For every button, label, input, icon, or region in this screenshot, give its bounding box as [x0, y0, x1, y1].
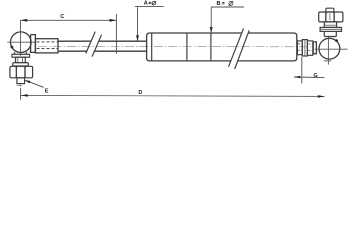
left hex nut facet 1: [10, 66, 17, 78]
label E leader line: [25, 80, 43, 87]
right ball marker dot: [335, 39, 338, 42]
left washer: [13, 63, 29, 66]
ball socket circle (right eye): [319, 38, 340, 59]
hidden thread line upper: [37, 41, 58, 43]
cylinder body outline: [147, 33, 297, 61]
right flange midline: [321, 28, 341, 30]
svg-text:A: A: [144, 1, 148, 7]
dimension G arrow: [294, 76, 300, 78]
cylinder break line 2: [235, 30, 250, 69]
label B leader line: [210, 7, 212, 33]
right nut centerline dash: [329, 14, 331, 21]
left hex nut facet 3: [25, 66, 33, 78]
right connector nut flats: [304, 40, 306, 56]
dimension C right extension line: [115, 14, 117, 54]
svg-text:D: D: [138, 90, 142, 96]
dimension D line: [21, 95, 325, 96]
label A leader arrow: [136, 35, 139, 41]
svg-text:G: G: [313, 73, 317, 79]
rod break line 2: [92, 35, 101, 57]
dimension C left arrow: [21, 19, 28, 22]
main axis centerline: [38, 45, 313, 48]
left threaded stud: [17, 78, 25, 84]
svg-text:C: C: [60, 14, 64, 20]
label B underline: [211, 6, 244, 8]
right connector block 3 marks: [308, 44, 312, 51]
left neck: [16, 57, 26, 62]
dimension D left extension line: [20, 85, 22, 100]
right neck mid line: [324, 24, 336, 26]
right connector thread dashes: [298, 44, 302, 50]
dimension C line: [21, 19, 117, 21]
hidden thread line lower: [37, 48, 58, 50]
dimension C right arrow: [110, 19, 117, 22]
piston rod bottom outline: [58, 50, 147, 52]
dimension G line: [294, 76, 325, 79]
cylinder feature line 1: [186, 33, 188, 61]
left hex nut facet 2: [16, 66, 25, 78]
label B diameter symbol: [229, 1, 234, 6]
right hex nut facet 1: [319, 12, 326, 22]
right ball horizontal centerline: [315, 48, 348, 50]
left flange plate: [12, 54, 30, 57]
ball socket circle (left eye): [10, 32, 31, 53]
right neck: [324, 22, 336, 28]
right connector nut block: [302, 40, 307, 56]
dimension D right arrow: [318, 95, 325, 98]
right hex nut facet 3: [334, 12, 343, 22]
label A underline: [135, 6, 164, 8]
right connector thread block: [297, 41, 302, 55]
right ball vertical centerline: [327, 36, 329, 64]
dimension D left arrow: [21, 94, 28, 97]
left ball marker dot: [11, 46, 14, 49]
right hex nut facet 2: [326, 12, 334, 22]
left ball vertical centerline / C extension line: [20, 20, 22, 56]
right connector block 3: [307, 41, 312, 55]
piston rod top outline: [58, 40, 147, 42]
left stud tip mark: [17, 84, 22, 86]
cylinder feature line 2: [210, 33, 212, 61]
label B equals sign: [222, 3, 225, 4]
right collar: [324, 31, 336, 36]
svg-text:E: E: [45, 88, 49, 94]
left neck thread lines: [18, 57, 23, 62]
svg-text:B: B: [217, 1, 221, 7]
rod-end connector block: [35, 39, 58, 53]
right flange plate: [320, 27, 341, 31]
right stud cap: [326, 8, 334, 12]
label A diameter symbol: [152, 1, 156, 5]
label E leader arrow: [25, 80, 31, 83]
label A leader line: [137, 7, 139, 41]
cylinder end-cap line: [151, 33, 153, 61]
left ball horizontal centerline: [7, 41, 36, 43]
left collar under ball: [15, 52, 27, 54]
label B leader arrow: [210, 27, 213, 33]
left socket cap: [31, 35, 36, 53]
dimension G extension line: [301, 57, 303, 84]
label A equals sign: [149, 2, 152, 3]
right socket cap: [313, 42, 316, 54]
cylinder break line 1: [229, 29, 244, 67]
right ball bottom tick: [324, 60, 331, 62]
rod break line 1: [86, 32, 95, 54]
